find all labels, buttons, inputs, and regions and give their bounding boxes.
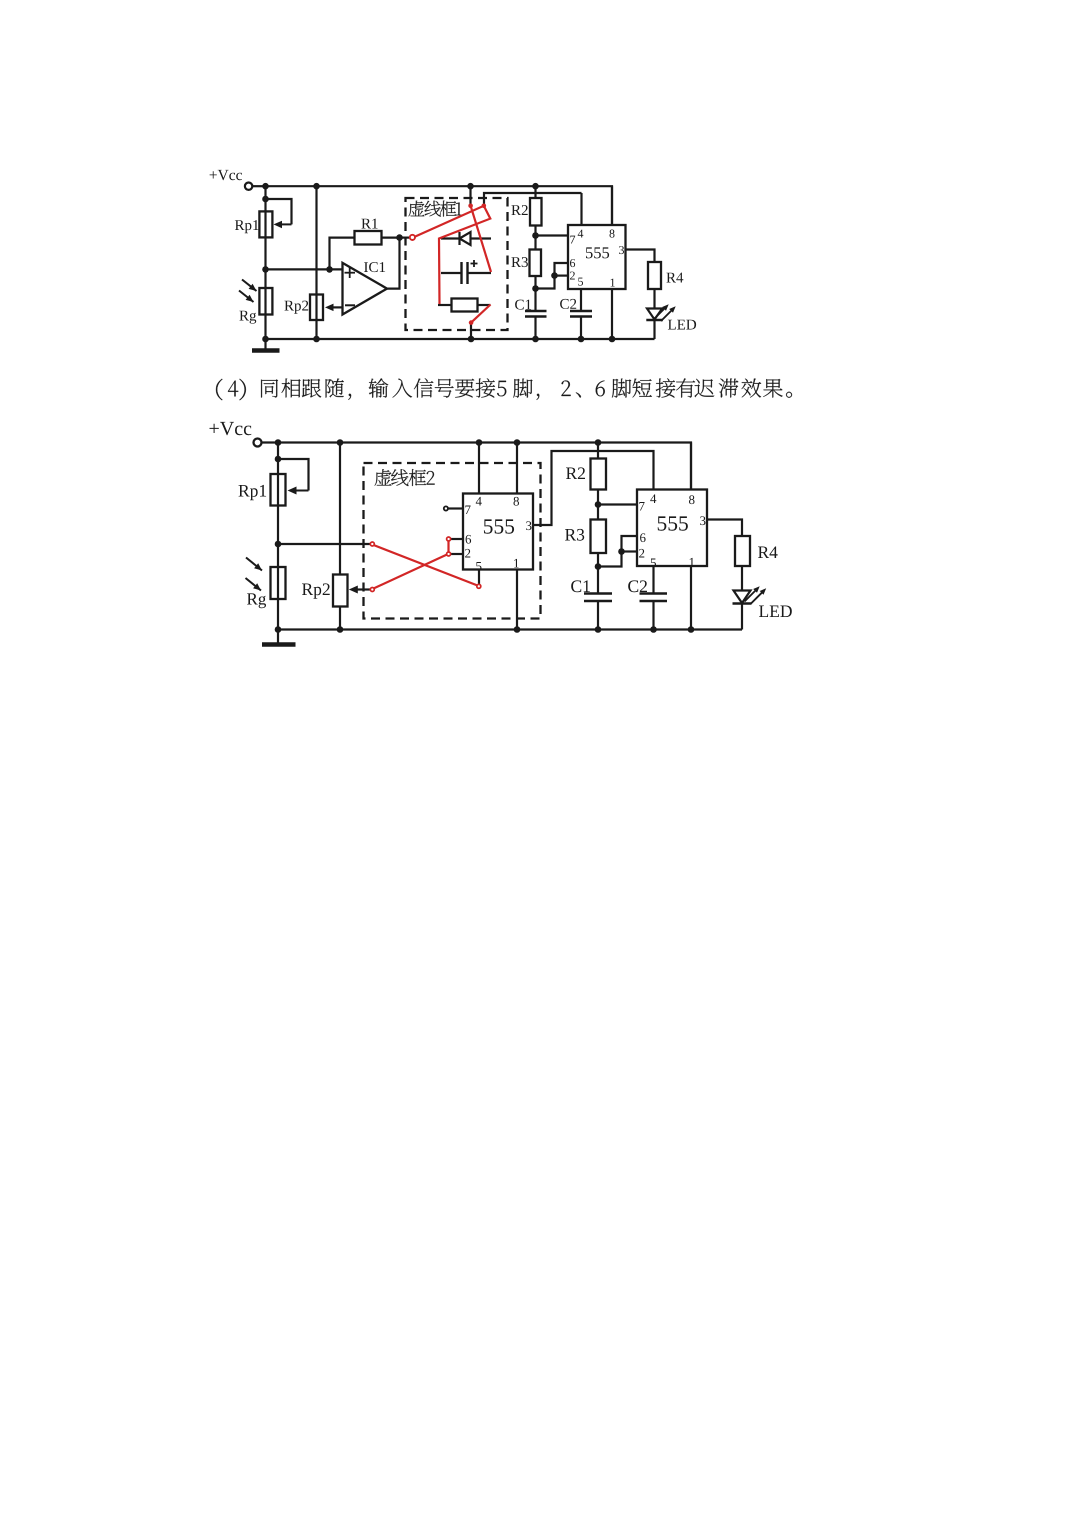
pin number 6 (bottom 555-1) [466,535,472,544]
wire left vertical Rp1-Rg branch (bottom circuit) [277,443,279,630]
junction output node (top circuit) [396,234,403,241]
label R1 (top circuit) [361,219,377,229]
pin number 3 (top 555) [619,246,624,254]
wire Rp1 wiper loop (bottom circuit) [278,459,309,491]
diode in dashed box (top circuit) [441,237,460,239]
ground symbol (top circuit) [264,339,266,350]
junction pins 2-6 node (top circuit) [532,285,539,292]
wire pin5 to C2 (top circuit) [580,289,582,311]
pin number 2 (bottom 555-1) [465,549,470,558]
wire divider node to op-amp +input (top circuit) [266,268,343,270]
red jumper divider-to-pin5 (bottom circuit) [374,545,478,586]
junction pin7 node (bottom circuit) [595,501,602,508]
resistor R3 (top circuit) [530,250,542,277]
label R2 (top circuit) [511,205,527,215]
red node rings (bottom circuit) [370,542,374,546]
wire op-amp output to R1 right (top circuit) [382,238,400,289]
node above Rp1 (top circuit) [262,196,269,203]
junction pin2 tie (top circuit) [551,272,558,279]
label dashed-box-2 (CJK paths) [375,469,435,486]
pin number 3 (bottom 555-2) [700,516,705,525]
wire R3 to C1 (top circuit) [534,276,536,311]
junction dots on +Vcc rail (top circuit) [262,183,269,190]
label +Vcc (bottom circuit) [210,422,252,435]
pin number 8 (bottom 555-1) [514,497,520,506]
label LED (top circuit) [668,320,696,330]
wire pin7 stub with terminal (bottom 555-1) [448,507,463,509]
capacitor C1 (top circuit) [525,310,547,313]
timer 555 second (bottom circuit) [637,490,707,567]
junction dots on ground rail (bottom circuit) [275,626,282,633]
pin number 6 (top 555) [570,259,575,267]
op-amp - marking (top circuit) [345,304,355,306]
node above Rp1 (bottom circuit) [275,456,282,463]
label Rg (bottom circuit) [247,593,266,608]
pin number 8 (bottom 555-2) [689,495,695,504]
resistor R1 (top circuit) [355,231,382,245]
wire pin4 vertical (top circuit) [580,193,582,225]
pin number 5 (bottom 555-2) [651,559,656,568]
red correction polyline (top circuit) [415,206,490,304]
LED emission arrows (top circuit) [654,307,667,320]
timer 555 U1 (top circuit) [568,225,626,289]
label IC1 (top circuit) [364,262,385,272]
pin number 8 (top 555) [610,230,615,238]
pin number 5 (bottom 555-1) [476,562,481,571]
wire pin8 vertical (bottom 555-2) [690,443,692,490]
timer 555 first (bottom circuit) [463,494,533,570]
resistor R2 (top circuit) [534,186,536,198]
wire R2 to R3 (top circuit) [534,226,536,250]
resistor R2 (bottom circuit) [597,443,599,459]
label R2 (bottom circuit) [566,467,585,479]
pin number 2 (top 555) [570,272,575,280]
wire +Vcc top rail (bottom circuit) [278,443,691,490]
LED D1 (top circuit) [647,309,662,320]
wire pin3 to R4 (top circuit) [626,250,655,263]
label R4 (top circuit) [666,273,683,283]
pin number 7 (bottom 555-1) [465,506,470,515]
wire pin5 to C2 (bottom circuit) [652,566,654,594]
label LED (bottom circuit) [759,606,792,618]
dashed box 2 (bottom circuit) [364,463,541,619]
node divider (bottom circuit) [275,541,282,548]
red correction ring at op-amp output (top circuit) [410,235,415,240]
wire +Vcc top rail (top circuit) [266,186,613,225]
label +Vcc (top circuit) [210,170,242,180]
node Rp1/Rg divider (top circuit) [262,266,269,273]
red line Vcc-stub to capacitor (top circuit) [471,206,491,272]
label Rp2 (top circuit) [284,301,308,314]
pin number 2 (bottom 555-2) [639,549,644,558]
capacitor C2 (top circuit) [570,310,592,313]
label C1 (top circuit) [515,300,531,310]
LED D2 (bottom circuit) [734,591,751,604]
capacitor C1 (bottom circuit) [584,592,612,595]
junction pin7 node (top circuit) [532,232,539,239]
junction pin2 tie (bottom circuit) [618,548,625,555]
resistor R3 (bottom circuit) [591,520,607,554]
red line resistor to bottom stub (top circuit) [471,305,490,323]
wire pin7 (top circuit) [536,234,569,236]
wire pin1 to ground rail (top circuit) [611,289,613,339]
ground symbol (bottom circuit) [277,630,279,644]
label R4 (bottom circuit) [758,547,778,559]
resistor in dashed box (top circuit) [452,299,478,312]
wire pin4 vertical (bottom 555-1) [478,443,480,494]
resistor R4 (bottom circuit) [735,536,750,566]
wire pin6 stub (bottom 555-1) [451,538,463,540]
pin number 4 (bottom 555-1) [476,497,482,506]
wire Vcc stub into box (top circuit) [469,186,471,205]
wire pin1 to ground rail (bottom circuit) [690,566,692,630]
wire pin5 stub (bottom 555-1) [478,570,480,586]
capacitor C2 (bottom circuit) [640,592,668,595]
wire pin1 to ground rail (bottom 555-1) [516,570,518,630]
caption paragraph (4) ... (CJK paths) [216,378,792,400]
pin number 4 (bottom 555-2) [650,494,656,503]
wire left vertical Rp1-Rg branch (top circuit) [264,186,266,339]
label 555 first (bottom circuit) [484,519,514,533]
wire R4 to LED (top circuit) [653,289,655,309]
label Rg (top circuit) [239,311,256,324]
pin number 5 (top 555) [578,278,583,286]
wire ground rail (top circuit) [266,338,655,340]
wire ground rail (bottom circuit) [278,628,742,630]
wire Rp1 wiper loop (top circuit) [266,199,292,224]
pin number 4 (top 555) [578,230,584,238]
potentiometer Rp1 (top circuit) [259,211,272,237]
pin number 1 (bottom 555-1) [514,559,519,568]
pin number 6 (bottom 555-2) [640,533,646,542]
wire pin4 stub and reset line (top circuit) [484,193,582,206]
label C2 (bottom circuit) [628,580,647,592]
wire box bottom stub to ground rail (top circuit) [470,323,472,339]
wire Rp2 wiper into dashed box (bottom circuit) [356,588,371,590]
label Rp2 (bottom circuit) [302,583,330,598]
wire Rp2 branch vertical upper (bottom circuit) [339,443,341,575]
wire Rp2 branch vertical lower (bottom circuit) [339,607,341,630]
pin number 1 (top 555) [611,279,615,287]
label dashed-box-1 (CJK paths) [409,201,462,217]
junction pins 2-6 node (bottom circuit) [595,563,602,570]
pin number 7 (top 555) [570,236,575,244]
wire pin8 vertical (top circuit) [611,186,613,225]
op-amp IC1 (top circuit) [343,263,388,315]
op-amp + marking (top circuit) [345,272,356,274]
wire R1 left to +input node (top circuit) [330,238,355,270]
resistor R4 (top circuit) [648,262,661,289]
polarized capacitor in dashed box (top circuit) [441,272,462,274]
wire Rp2 wiper to op-amp -input (top circuit) [332,306,343,308]
LED emission arrows (bottom circuit) [745,589,758,602]
red link pins 6-2 (bottom circuit) [447,539,449,554]
wire R2 to R3 (bottom circuit) [597,490,599,520]
wire pin8 vertical (bottom 555-1) [516,443,518,494]
label R3 (bottom circuit) [565,529,584,541]
wire pin2 stub (bottom 555-1) [451,553,463,555]
wire pin3 to R4 (bottom circuit) [707,520,742,537]
junction feedback to +input (top circuit) [326,266,333,273]
wire output node into dashed box (top circuit) [400,237,411,239]
wire R4 to LED (bottom circuit) [741,566,743,591]
pin number 3 (bottom 555-1) [526,521,531,530]
pin number 7 (bottom 555-2) [639,502,644,511]
label R3 (top circuit) [511,257,528,267]
wire pin3 to second 555 pin4 (bottom circuit) [533,451,654,525]
wire Rp2 branch vertical (top circuit) [315,186,317,339]
wire pin7 (bottom circuit) [598,503,637,505]
photoresistor Rg (top circuit) [259,288,272,315]
power terminal +Vcc (bottom circuit) [254,439,262,447]
label C2 (top circuit) [560,299,576,309]
wire threshold/trigger link (top circuit) [536,263,569,289]
label Rp1 (bottom circuit) [239,485,267,500]
wire divider node into dashed box (bottom circuit) [278,543,371,545]
potentiometer Rp2 (bottom circuit) [333,575,348,607]
label C1 (bottom circuit) [571,580,590,592]
junction dots on ground rail (top circuit) [262,336,269,343]
pin number 1 (bottom 555-2) [690,558,695,567]
wire threshold/trigger link (bottom circuit) [598,536,637,567]
light arrows into Rg (top circuit) [242,280,257,292]
red jumper wiper-to-pin2 (bottom circuit) [374,555,448,589]
potentiometer Rp1 (bottom circuit) [271,474,286,506]
red endpoint dots (top circuit) [468,204,473,209]
label 555 second (bottom circuit) [658,516,688,530]
wire R3 to C1 (bottom circuit) [597,553,599,594]
label 555 (top circuit) [586,247,609,258]
power terminal +Vcc (top circuit) [245,183,252,190]
dashed box 1 (top circuit) [406,198,508,330]
label Rp1 (top circuit) [235,220,259,233]
potentiometer Rp2 (top circuit) [310,295,323,321]
junction dots on +Vcc rail (bottom circuit) [275,439,282,446]
light arrows into Rg (bottom circuit) [246,558,262,571]
photoresistor Rg (bottom circuit) [271,567,286,599]
